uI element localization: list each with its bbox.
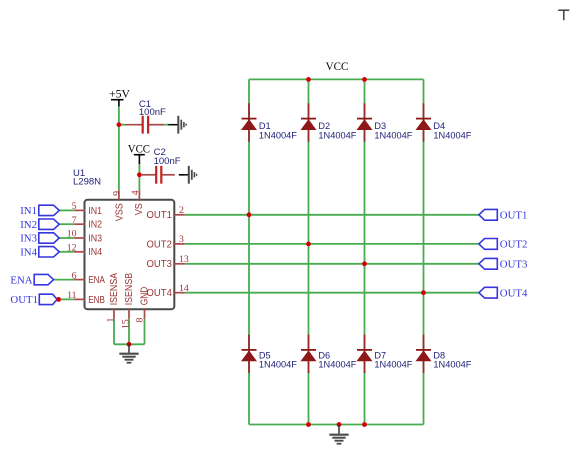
svg-text:IN3: IN3 bbox=[88, 233, 102, 244]
svg-text:1N4004F: 1N4004F bbox=[259, 131, 297, 141]
svg-text:IN2: IN2 bbox=[20, 219, 37, 231]
svg-text:12: 12 bbox=[67, 243, 77, 254]
svg-text:IN4: IN4 bbox=[20, 247, 37, 259]
svg-text:ISENSA: ISENSA bbox=[109, 272, 120, 305]
svg-text:VCC: VCC bbox=[128, 144, 150, 156]
svg-text:4: 4 bbox=[130, 190, 141, 195]
svg-text:13: 13 bbox=[179, 254, 189, 265]
svg-text:IN2: IN2 bbox=[88, 220, 102, 231]
svg-text:6: 6 bbox=[72, 270, 77, 281]
svg-text:ISENSB: ISENSB bbox=[124, 272, 135, 305]
svg-text:11: 11 bbox=[67, 290, 77, 301]
svg-text:1N4004F: 1N4004F bbox=[318, 131, 356, 141]
svg-text:5: 5 bbox=[72, 201, 77, 212]
svg-text:1N4004F: 1N4004F bbox=[318, 360, 356, 370]
svg-text:OUT1: OUT1 bbox=[500, 210, 528, 222]
svg-text:IN1: IN1 bbox=[88, 206, 102, 217]
svg-text:OUT4: OUT4 bbox=[500, 287, 528, 299]
svg-text:+5V: +5V bbox=[109, 89, 131, 101]
svg-text:ENB: ENB bbox=[88, 295, 105, 306]
svg-text:2: 2 bbox=[179, 205, 184, 216]
svg-text:1N4004F: 1N4004F bbox=[259, 360, 297, 370]
svg-text:VS: VS bbox=[134, 203, 145, 215]
svg-text:3: 3 bbox=[179, 234, 184, 245]
svg-text:7: 7 bbox=[72, 215, 77, 226]
svg-text:IN4: IN4 bbox=[88, 247, 102, 258]
svg-text:1N4004F: 1N4004F bbox=[374, 360, 412, 370]
svg-text:OUT1: OUT1 bbox=[10, 294, 38, 306]
svg-text:OUT2: OUT2 bbox=[147, 239, 172, 250]
svg-text:IN1: IN1 bbox=[20, 205, 37, 217]
svg-text:OUT3: OUT3 bbox=[500, 259, 528, 271]
svg-text:ENA: ENA bbox=[10, 274, 32, 286]
svg-text:10: 10 bbox=[67, 229, 77, 240]
svg-text:OUT2: OUT2 bbox=[500, 239, 528, 251]
svg-text:ENA: ENA bbox=[88, 275, 105, 286]
svg-text:1N4004F: 1N4004F bbox=[374, 131, 412, 141]
svg-text:OUT3: OUT3 bbox=[147, 259, 173, 270]
svg-text:1N4004F: 1N4004F bbox=[433, 131, 471, 141]
svg-text:15: 15 bbox=[121, 319, 132, 329]
svg-text:OUT1: OUT1 bbox=[147, 210, 172, 221]
svg-text:9: 9 bbox=[112, 191, 123, 196]
svg-text:IN3: IN3 bbox=[20, 233, 37, 245]
svg-text:100nF: 100nF bbox=[154, 156, 181, 167]
svg-text:1N4004F: 1N4004F bbox=[433, 360, 471, 370]
svg-text:VCC: VCC bbox=[326, 61, 349, 73]
svg-text:L298N: L298N bbox=[73, 177, 101, 188]
svg-text:1: 1 bbox=[106, 318, 117, 323]
svg-text:VSS: VSS bbox=[114, 203, 125, 221]
svg-text:100nF: 100nF bbox=[139, 107, 166, 118]
svg-text:8: 8 bbox=[135, 318, 146, 323]
svg-text:14: 14 bbox=[179, 283, 189, 294]
svg-text:GND: GND bbox=[140, 287, 151, 306]
